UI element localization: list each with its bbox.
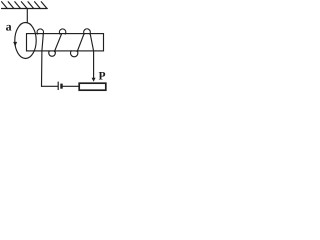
- svg-text:a: a: [6, 20, 12, 34]
- svg-text:P: P: [99, 70, 106, 82]
